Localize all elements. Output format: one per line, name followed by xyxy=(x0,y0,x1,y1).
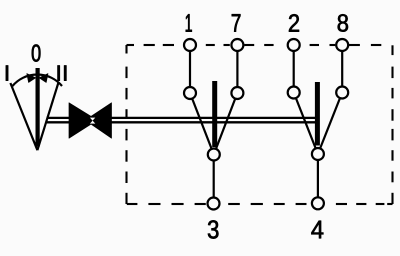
lever position sector xyxy=(10,68,62,150)
contact group 4 (terminals 2,8 -> 4) xyxy=(294,45,343,203)
wire from terminal 8 xyxy=(341,45,343,93)
wire common to terminal 3 xyxy=(213,155,215,204)
label 0 xyxy=(32,45,41,62)
label terminal 8 xyxy=(338,14,348,32)
label terminal 3 xyxy=(208,220,219,238)
actuator bar group 3 xyxy=(212,81,217,147)
wire common to terminal 4 xyxy=(317,154,319,203)
contact circle under 8 xyxy=(336,87,348,99)
terminal 2 xyxy=(288,39,300,51)
label terminal 2 xyxy=(289,14,299,32)
label terminal 7 xyxy=(232,14,241,32)
wire contact 1 to common xyxy=(190,93,214,155)
wire contact 8 to common xyxy=(318,93,342,155)
wire contact 7 to common xyxy=(214,93,238,155)
terminal 7 xyxy=(231,39,243,51)
common contact group 3 xyxy=(208,149,220,161)
contact group 3 (terminals 1,7 -> 3) xyxy=(190,45,237,204)
terminal 3 xyxy=(208,198,220,210)
terminal 1 xyxy=(184,39,196,51)
wire contact 2 to common xyxy=(294,93,318,155)
label I xyxy=(6,66,8,81)
common contact group 4 xyxy=(312,148,324,160)
terminal 4 xyxy=(312,197,324,209)
contact circle under 7 xyxy=(231,87,243,99)
arrowhead right (pointing to lever) xyxy=(39,74,48,83)
mechanical coupling (bow-tie) right triangle xyxy=(85,103,111,138)
wire from terminal 1 xyxy=(189,45,191,93)
actuator bar group 4 xyxy=(315,82,320,146)
wire from terminal 2 xyxy=(293,45,295,93)
label terminal 1 xyxy=(186,14,192,32)
label terminal 4 xyxy=(311,221,323,239)
arc arrow between positions I and II xyxy=(13,75,63,86)
wire: mechanical double link line (top) xyxy=(47,117,320,119)
terminal 8 xyxy=(336,39,348,51)
mechanical coupling (bow-tie) left triangle xyxy=(69,103,97,138)
arrowhead left (pointing to lever) xyxy=(27,74,36,83)
label II xyxy=(58,66,60,81)
contact circle under 2 xyxy=(288,87,300,99)
wire from terminal 7 xyxy=(236,45,238,93)
contact circle under 1 xyxy=(184,87,196,99)
wire: mechanical double link line (bottom) xyxy=(46,121,320,123)
dashed enclosure box xyxy=(127,45,393,204)
wire: sector left diagonal xyxy=(10,83,37,150)
wire: sector right diagonal xyxy=(37,83,58,150)
coupling center white hourglass mark xyxy=(90,118,95,121)
lever handle at position 0 xyxy=(35,68,39,147)
